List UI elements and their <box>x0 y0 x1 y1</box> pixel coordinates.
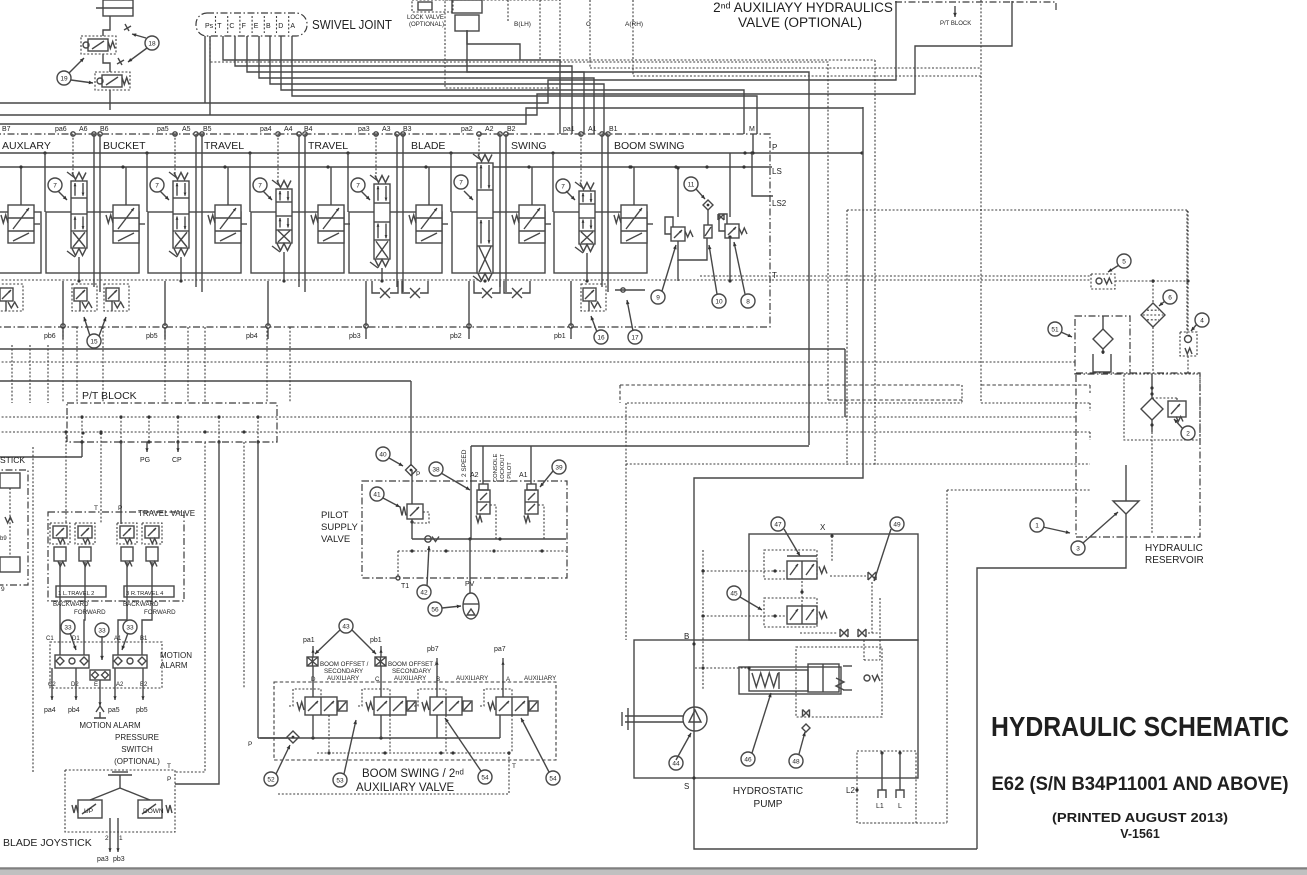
svg-text:A1: A1 <box>114 636 122 642</box>
svg-text:DOWN: DOWN <box>143 808 164 815</box>
svg-text:1: 1 <box>1035 522 1039 529</box>
svg-text:pb3: pb3 <box>349 333 361 340</box>
svg-text:16: 16 <box>597 334 605 341</box>
svg-text:8: 8 <box>746 298 750 305</box>
svg-text:ALARM: ALARM <box>160 661 188 670</box>
svg-text:33: 33 <box>98 627 106 634</box>
svg-text:BACKWARD: BACKWARD <box>53 601 89 608</box>
svg-text:pb1: pb1 <box>370 637 382 644</box>
svg-text:LS: LS <box>772 167 782 176</box>
svg-text:40: 40 <box>379 451 387 458</box>
svg-text:7: 7 <box>53 182 57 189</box>
svg-text:pa4: pa4 <box>44 707 56 714</box>
svg-text:C1: C1 <box>46 636 54 642</box>
svg-text:Ps: Ps <box>205 23 214 30</box>
svg-text:BOOM SWING: BOOM SWING <box>614 140 685 152</box>
svg-text:47: 47 <box>774 521 782 528</box>
svg-text:C: C <box>229 23 234 30</box>
svg-text:M: M <box>749 126 755 133</box>
svg-text:19: 19 <box>60 75 68 82</box>
svg-text:54: 54 <box>549 775 557 782</box>
svg-text:56: 56 <box>431 606 439 613</box>
svg-text:2ⁿᵈ AUXILIAYY HYDRAULICS: 2ⁿᵈ AUXILIAYY HYDRAULICS <box>713 0 893 15</box>
svg-text:33: 33 <box>126 624 134 631</box>
svg-text:B1: B1 <box>609 126 618 133</box>
svg-text:7: 7 <box>155 182 159 189</box>
svg-text:HYDRAULIC: HYDRAULIC <box>1145 543 1203 554</box>
svg-text:39: 39 <box>555 464 563 471</box>
svg-text:D: D <box>278 23 283 30</box>
svg-text:pa3: pa3 <box>358 126 370 133</box>
svg-text:51: 51 <box>1051 326 1059 333</box>
svg-text:pb5: pb5 <box>136 707 148 714</box>
svg-text:46: 46 <box>744 756 752 763</box>
svg-text:A2: A2 <box>485 126 494 133</box>
svg-text:7: 7 <box>258 182 262 189</box>
svg-text:E62 (S/N B34P11001 AND ABOVE): E62 (S/N B34P11001 AND ABOVE) <box>992 773 1289 795</box>
svg-text:P: P <box>772 143 777 152</box>
svg-text:CP: CP <box>172 457 182 464</box>
svg-text:2: 2 <box>105 835 109 842</box>
svg-text:A3: A3 <box>382 126 391 133</box>
svg-text:SUPPLY: SUPPLY <box>321 522 358 533</box>
svg-text:BUCKET: BUCKET <box>103 140 146 152</box>
svg-text:HYDROSTATIC: HYDROSTATIC <box>733 786 803 797</box>
svg-text:SWIVEL JOINT: SWIVEL JOINT <box>312 17 392 32</box>
svg-text:pa1: pa1 <box>303 637 315 644</box>
svg-text:pb5: pb5 <box>146 333 158 340</box>
svg-text:A5: A5 <box>182 126 191 133</box>
svg-text:7: 7 <box>356 182 360 189</box>
svg-text:S: S <box>684 782 689 791</box>
svg-text:b9: b9 <box>0 536 7 542</box>
svg-text:AUXILIARY: AUXILIARY <box>524 675 556 682</box>
svg-text:T1: T1 <box>401 583 409 590</box>
svg-text:FORWARD: FORWARD <box>74 609 106 616</box>
svg-text:15: 15 <box>90 338 98 345</box>
svg-text:T: T <box>512 763 516 770</box>
svg-text:SWING: SWING <box>511 140 547 152</box>
svg-text:LOCKOUT: LOCKOUT <box>500 454 506 482</box>
svg-text:B5: B5 <box>203 126 212 133</box>
svg-text:MOTION: MOTION <box>160 651 192 660</box>
svg-text:UP: UP <box>84 808 93 815</box>
svg-text:A2: A2 <box>116 682 124 688</box>
svg-text:pb3: pb3 <box>113 856 125 863</box>
svg-text:P/T BLOCK: P/T BLOCK <box>940 21 971 27</box>
svg-text:PRESSURE: PRESSURE <box>115 733 159 742</box>
svg-text:T: T <box>167 763 171 770</box>
svg-text:44: 44 <box>672 760 680 767</box>
svg-text:(PRINTED AUGUST 2013): (PRINTED AUGUST 2013) <box>1052 811 1228 825</box>
svg-text:38: 38 <box>432 466 440 473</box>
svg-text:pb6: pb6 <box>44 333 56 340</box>
svg-text:PUMP: PUMP <box>754 799 783 810</box>
svg-text:SECONDARY: SECONDARY <box>392 668 431 675</box>
svg-text:6: 6 <box>1168 294 1172 301</box>
svg-text:L1: L1 <box>876 803 884 810</box>
svg-text:L2: L2 <box>846 786 855 795</box>
svg-text:pa4: pa4 <box>260 126 272 133</box>
svg-text:52: 52 <box>267 776 275 783</box>
svg-text:BOOM SWING / 2ⁿᵈ: BOOM SWING / 2ⁿᵈ <box>362 768 464 780</box>
svg-text:V-1561: V-1561 <box>1120 827 1160 841</box>
svg-text:FORWARD: FORWARD <box>144 609 176 616</box>
svg-text:pb2: pb2 <box>450 333 462 340</box>
svg-text:A4: A4 <box>284 126 293 133</box>
svg-text:L: L <box>898 803 902 810</box>
svg-text:9: 9 <box>656 294 660 301</box>
svg-text:STICK: STICK <box>0 455 25 465</box>
svg-text:T: T <box>94 505 98 512</box>
svg-text:pa1: pa1 <box>563 126 575 133</box>
svg-text:E: E <box>94 682 98 688</box>
svg-text:pb4: pb4 <box>246 333 258 340</box>
svg-text:pa5: pa5 <box>108 707 120 714</box>
svg-text:AUXILIARY: AUXILIARY <box>456 675 488 682</box>
svg-text:B2: B2 <box>140 682 148 688</box>
svg-text:T: T <box>217 23 222 30</box>
svg-text:HYDRAULIC SCHEMATIC: HYDRAULIC SCHEMATIC <box>991 711 1289 742</box>
svg-text:F: F <box>242 23 246 30</box>
svg-text:A(RH): A(RH) <box>625 21 643 28</box>
svg-text:B(LH): B(LH) <box>514 21 531 28</box>
svg-text:1 L.TRAVEL 2: 1 L.TRAVEL 2 <box>58 591 94 597</box>
svg-text:4: 4 <box>1200 317 1204 324</box>
svg-text:E: E <box>254 23 259 30</box>
svg-text:B: B <box>684 632 689 641</box>
svg-text:D1: D1 <box>72 636 80 642</box>
svg-text:BLADE JOYSTICK: BLADE JOYSTICK <box>3 837 92 849</box>
svg-text:A6: A6 <box>79 126 88 133</box>
svg-text:CONSOLE: CONSOLE <box>493 454 499 482</box>
svg-text:LS2: LS2 <box>772 199 787 208</box>
svg-text:MOTION ALARM: MOTION ALARM <box>79 721 141 730</box>
svg-text:PG: PG <box>140 457 150 464</box>
svg-text:7: 7 <box>459 179 463 186</box>
svg-text:2: 2 <box>1186 430 1190 437</box>
svg-text:B1: B1 <box>140 636 148 642</box>
svg-text:(OPTIONAL): (OPTIONAL) <box>114 757 160 766</box>
svg-text:45: 45 <box>730 590 738 597</box>
svg-text:AUXLARY: AUXLARY <box>2 140 51 152</box>
svg-text:49: 49 <box>893 521 901 528</box>
svg-text:9: 9 <box>1 586 5 593</box>
svg-text:pb1: pb1 <box>554 333 566 340</box>
svg-text:pa2: pa2 <box>461 126 473 133</box>
svg-text:43: 43 <box>342 623 350 630</box>
svg-text:3: 3 <box>1076 545 1080 552</box>
svg-text:BOOM OFFSET /: BOOM OFFSET / <box>320 661 369 668</box>
svg-text:pb4: pb4 <box>68 707 80 714</box>
svg-text:33: 33 <box>64 624 72 631</box>
svg-text:VALVE: VALVE <box>321 534 350 545</box>
svg-text:pa5: pa5 <box>157 126 169 133</box>
svg-text:18: 18 <box>148 40 156 47</box>
svg-text:48: 48 <box>792 758 800 765</box>
svg-text:A: A <box>290 23 295 30</box>
svg-text:(OPTIONAL): (OPTIONAL) <box>409 22 444 28</box>
svg-text:11: 11 <box>688 181 695 188</box>
svg-text:54: 54 <box>481 774 489 781</box>
svg-text:pa3: pa3 <box>97 856 109 863</box>
svg-text:BLADE: BLADE <box>411 140 445 152</box>
svg-text:17: 17 <box>631 334 639 341</box>
svg-text:P/T BLOCK: P/T BLOCK <box>82 390 137 402</box>
svg-text:LOCK VALVE: LOCK VALVE <box>407 15 444 21</box>
svg-text:SECONDARY: SECONDARY <box>324 668 363 675</box>
svg-text:2 SPEED: 2 SPEED <box>461 449 468 477</box>
svg-text:B: B <box>266 23 271 30</box>
svg-text:10: 10 <box>715 298 723 305</box>
svg-text:RESERVOIR: RESERVOIR <box>1145 555 1204 566</box>
svg-text:41: 41 <box>373 491 381 498</box>
svg-text:/ PILOT: / PILOT <box>507 462 513 482</box>
svg-text:P: P <box>167 776 171 783</box>
svg-text:P: P <box>118 505 122 512</box>
svg-text:3 R.TRAVEL 4: 3 R.TRAVEL 4 <box>126 591 164 597</box>
svg-text:A2: A2 <box>470 472 479 479</box>
svg-text:pb7: pb7 <box>427 646 439 653</box>
svg-text:VALVE (OPTIONAL): VALVE (OPTIONAL) <box>738 15 862 30</box>
svg-text:TRAVEL: TRAVEL <box>308 140 348 152</box>
svg-text:pa7: pa7 <box>494 646 506 653</box>
svg-text:7: 7 <box>561 183 565 190</box>
svg-text:SWITCH: SWITCH <box>121 745 153 754</box>
svg-text:B2: B2 <box>507 126 516 133</box>
svg-text:TRAVEL VALVE: TRAVEL VALVE <box>138 509 195 518</box>
svg-text:53: 53 <box>336 777 344 784</box>
svg-text:AUXILIARY VALVE: AUXILIARY VALVE <box>356 782 455 794</box>
svg-text:pa6: pa6 <box>55 126 67 133</box>
svg-text:X: X <box>820 523 826 532</box>
svg-text:AUXILIARY: AUXILIARY <box>327 675 359 682</box>
svg-text:D2: D2 <box>71 682 79 688</box>
svg-text:A1: A1 <box>519 472 528 479</box>
svg-text:P: P <box>416 471 420 478</box>
svg-text:42: 42 <box>420 589 428 596</box>
svg-text:B7: B7 <box>2 126 11 133</box>
svg-text:TRAVEL: TRAVEL <box>204 140 244 152</box>
svg-text:PILOT: PILOT <box>321 510 349 521</box>
svg-text:AUXILIARY: AUXILIARY <box>394 675 426 682</box>
svg-text:P: P <box>248 741 252 748</box>
svg-text:5: 5 <box>1122 258 1126 265</box>
svg-text:BOOM OFFSET /: BOOM OFFSET / <box>388 661 437 668</box>
svg-text:1: 1 <box>119 835 123 842</box>
svg-text:A1: A1 <box>588 126 597 133</box>
svg-text:BACKWARD: BACKWARD <box>123 601 159 608</box>
